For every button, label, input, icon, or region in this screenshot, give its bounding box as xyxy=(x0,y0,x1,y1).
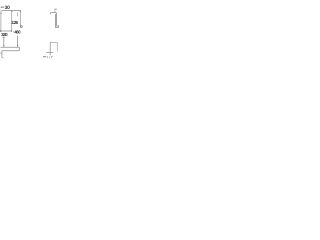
dimension label 30 arrowhead xyxy=(1,7,2,8)
leader arrowhead right xyxy=(17,45,18,47)
lower box left xyxy=(49,42,51,55)
top-left corner tick xyxy=(0,12,2,14)
svg-text:30: 30 xyxy=(5,5,11,11)
dimension line for 30 xyxy=(1,10,21,12)
rail bar right cap xyxy=(18,47,20,51)
dimension label 30 arrow xyxy=(1,6,4,8)
right edge extension line xyxy=(19,11,21,26)
leader arrowhead left xyxy=(3,45,4,47)
arrowhead blob 320 left xyxy=(0,30,1,32)
dash before 460 xyxy=(13,31,14,33)
leader line right with arrow xyxy=(17,36,19,47)
rail bar bottom line xyxy=(2,50,19,52)
leader top tick xyxy=(2,36,5,38)
rail left foot xyxy=(2,57,4,59)
side view top tab xyxy=(54,8,57,10)
extension line short xyxy=(16,12,18,16)
bottom tiny label xyxy=(48,56,53,58)
small circle feature xyxy=(20,26,22,28)
arrowhead blob mid xyxy=(11,10,12,12)
rail bar top line xyxy=(0,46,19,48)
lower box top xyxy=(50,41,57,43)
svg-text:320: 320 xyxy=(1,32,8,37)
dimension line 320 xyxy=(0,30,12,32)
side view foot top xyxy=(57,25,59,27)
side view plate outer line xyxy=(56,13,58,27)
left edge extension line xyxy=(0,11,2,32)
side view plate inner line xyxy=(54,14,56,28)
bottom dash xyxy=(43,56,46,58)
lower box right xyxy=(56,42,58,51)
side view foot cap xyxy=(58,25,60,27)
rail left drop xyxy=(1,51,3,58)
side view foot bottom xyxy=(55,27,58,29)
arrowhead blob right xyxy=(20,10,21,12)
side view arm xyxy=(51,13,56,15)
arrowhead blob 320 right xyxy=(11,30,12,32)
rail left tick xyxy=(0,52,2,54)
side view tab stem xyxy=(54,9,56,13)
extension line mid xyxy=(11,11,13,32)
lower box bottom shelf xyxy=(46,51,53,53)
leader line left with arrow xyxy=(3,37,5,47)
svg-text:2.26: 2.26 xyxy=(11,20,18,25)
